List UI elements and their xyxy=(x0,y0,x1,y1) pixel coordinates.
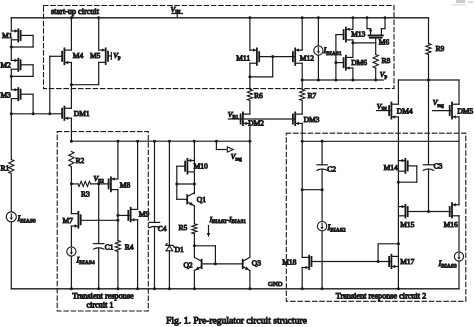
transistor M11 xyxy=(250,49,257,51)
wire R7 to DM3 xyxy=(301,101,303,115)
node Vreg-Q3 xyxy=(248,140,251,143)
svg-text:R8: R8 xyxy=(382,56,391,65)
svg-text:M10: M10 xyxy=(194,162,208,171)
resistor R8 xyxy=(373,55,378,69)
transistor DM6 xyxy=(346,56,353,58)
wire M11 to R6 xyxy=(249,77,251,89)
transistor DM3 xyxy=(295,113,302,115)
svg-text:Transient response circuit 2: Transient response circuit 2 xyxy=(336,292,426,301)
resistor R4 xyxy=(115,241,120,252)
node M10 loop right xyxy=(193,183,196,186)
wire M7 to IBIAS4 xyxy=(70,226,72,247)
svg-text:R3: R3 xyxy=(81,190,90,199)
transistor M18 xyxy=(302,256,309,258)
node M4 top xyxy=(70,16,73,19)
wire DM4 drain up xyxy=(397,80,399,104)
svg-text:DM6: DM6 xyxy=(351,58,367,67)
svg-text:M18: M18 xyxy=(282,257,296,266)
wire M14 gate loop xyxy=(408,165,417,167)
svg-text:DM5: DM5 xyxy=(457,106,473,115)
wire M11 loop xyxy=(249,63,251,77)
node gnd-D1 xyxy=(168,287,171,290)
wire M11M12 gate xyxy=(259,56,294,58)
wire link xyxy=(302,189,322,191)
wire M9 gate xyxy=(118,214,129,216)
node M14 drain xyxy=(397,181,400,184)
svg-text:R5: R5 xyxy=(179,223,188,232)
current source IBIAS2 xyxy=(317,222,326,231)
resistor R7 xyxy=(300,89,305,100)
wire Q1 emitter down xyxy=(193,206,195,224)
wire Q1 base xyxy=(177,198,188,200)
svg-text:R6: R6 xyxy=(254,91,263,100)
wire R4 to GND xyxy=(117,252,119,289)
start-up circuit dashed box xyxy=(44,6,395,89)
wire C1 column xyxy=(98,184,100,244)
wire M5 gate stub xyxy=(108,55,111,57)
wire M12 column xyxy=(301,18,303,50)
wire C1 to GND xyxy=(98,248,100,289)
transistor M16 xyxy=(452,204,459,206)
svg-text:DM2: DM2 xyxy=(248,118,264,127)
svg-text:VP: VP xyxy=(380,70,388,81)
svg-text:DM1: DM1 xyxy=(74,109,90,118)
wire M7 gate xyxy=(81,219,118,221)
svg-text:IBIAS4: IBIAS4 xyxy=(76,256,95,267)
svg-text:Vreg: Vreg xyxy=(433,98,444,109)
wire M10 column xyxy=(193,141,195,194)
zener D1 xyxy=(166,243,174,247)
node stack bottom xyxy=(10,112,13,115)
node VP-M12 xyxy=(301,79,304,82)
node M6 right xyxy=(384,16,387,19)
node M1 drain xyxy=(10,46,13,49)
transient response circuit 2 dashed box xyxy=(286,133,466,301)
transistor M12 xyxy=(295,49,302,51)
svg-text:DM3: DM3 xyxy=(304,115,320,124)
svg-text:IBIAS1: IBIAS1 xyxy=(323,46,342,57)
wire R7 column xyxy=(301,80,303,89)
current source IBIAS4 xyxy=(67,247,76,256)
transistor M15 xyxy=(398,206,405,208)
node base wire xyxy=(214,262,217,265)
wire R8 to VP xyxy=(375,68,377,80)
wire M15M16 gate xyxy=(408,211,451,213)
wire DM2 source down xyxy=(249,123,251,141)
wire M16 source down xyxy=(458,216,460,252)
transistor DM4 xyxy=(391,103,398,105)
wire IBIAS2 top xyxy=(321,190,323,222)
node Vreg-M9 xyxy=(136,140,139,143)
svg-text:M9: M9 xyxy=(139,209,150,218)
node M17 drain xyxy=(397,242,400,245)
transistor M14 xyxy=(398,160,405,162)
wire M6 gate down xyxy=(375,38,377,55)
node VP-IBIAS1 xyxy=(317,79,320,82)
resistor R9 xyxy=(426,44,431,55)
node A xyxy=(193,244,196,247)
wire M1 gate loop xyxy=(21,34,33,36)
svg-text:M13: M13 xyxy=(351,29,365,38)
wire M8 drain up xyxy=(117,141,119,179)
transistor M2 xyxy=(11,59,18,61)
svg-text:VIN: VIN xyxy=(171,5,181,16)
wire M13 gate xyxy=(336,34,344,36)
wire R9 bottom xyxy=(428,55,430,80)
wire R6 to DM2 xyxy=(249,101,251,115)
svg-text:M16: M16 xyxy=(444,220,458,229)
svg-text:M15: M15 xyxy=(400,220,414,229)
node riser-DM6gate xyxy=(334,61,337,64)
node M4 gate junction xyxy=(48,112,51,115)
node gnd-M17 xyxy=(397,287,400,290)
node IBIAS1 rail xyxy=(317,16,320,19)
wire M18 source xyxy=(301,268,303,289)
svg-text:M12: M12 xyxy=(300,53,314,62)
node Vreg-DM1 xyxy=(70,140,73,143)
node gnd-M18 xyxy=(301,287,304,290)
wire M12 drain down xyxy=(301,63,303,80)
transistor M5 xyxy=(99,49,106,51)
wire M9 source down xyxy=(137,220,139,289)
wire M1-M2 xyxy=(10,40,12,61)
svg-text:Q1: Q1 xyxy=(197,195,206,204)
transistor M13 xyxy=(346,28,353,30)
wire Q3 collector up xyxy=(249,141,251,257)
node Vreg-M8 xyxy=(116,140,119,143)
current source IBIAS0 xyxy=(6,212,16,222)
capacitor C4 xyxy=(149,221,159,223)
resistor R3 xyxy=(78,181,91,186)
wire M4 gate riser xyxy=(50,55,62,57)
svg-text:IBIAS2-IBIAS1: IBIAS2-IBIAS1 xyxy=(209,215,247,225)
wire M2 gate loop xyxy=(21,64,33,66)
node VP-R8 xyxy=(374,79,377,82)
wire C3 column xyxy=(428,80,430,165)
wire Q3 emitter xyxy=(249,271,251,289)
wire Q2 emitter xyxy=(193,271,195,289)
svg-text:IBIAS2: IBIAS2 xyxy=(327,223,346,234)
resistor R1 xyxy=(9,160,14,174)
transistor DM2 xyxy=(243,113,250,115)
node Vreg-D1 xyxy=(168,140,171,143)
wire IBIAS1 top xyxy=(317,18,319,46)
node VB2-C1 xyxy=(97,182,100,185)
svg-text:M3: M3 xyxy=(1,90,12,99)
svg-text:Q3: Q3 xyxy=(252,258,261,267)
node M12 top xyxy=(301,16,304,19)
capacitor C1 xyxy=(94,243,104,245)
svg-text:VP: VP xyxy=(113,51,121,62)
wire IBIAS3 to GND xyxy=(458,261,460,289)
wire M9 drain up xyxy=(137,141,139,209)
transistor DM1 xyxy=(64,107,71,109)
wire Q2Q3 base xyxy=(202,263,243,265)
node M11 gate xyxy=(271,55,274,58)
wire DM6 source down xyxy=(352,68,354,80)
svg-text:Vreg: Vreg xyxy=(231,152,242,163)
svg-text:IBIAS3: IBIAS3 xyxy=(438,259,457,270)
svg-text:C2: C2 xyxy=(327,164,336,173)
wire DM5 gate xyxy=(433,110,451,112)
node gnd-IBIAS2 xyxy=(321,287,324,290)
node M5 top xyxy=(97,16,100,19)
node M2 drain xyxy=(10,75,13,78)
wire Vreg tap flag xyxy=(215,141,217,149)
wire M2-M3 xyxy=(10,69,12,90)
wire Vreg net xyxy=(71,140,250,142)
transient response circuit 1 dashed box xyxy=(57,132,148,311)
arrow current annotation xyxy=(208,226,210,235)
wire VB2 xyxy=(71,183,78,185)
wire D1 column xyxy=(168,141,170,245)
node gnd-C1 xyxy=(97,287,100,290)
svg-text:DM4: DM4 xyxy=(397,106,413,115)
svg-text:VIN: VIN xyxy=(377,102,387,113)
svg-text:C3: C3 xyxy=(434,161,443,170)
node gnd-Q2 xyxy=(193,287,196,290)
wire GND rail xyxy=(11,288,459,290)
wire M17 loop xyxy=(377,244,379,262)
wire M3 to R1 xyxy=(10,99,12,160)
wire M5 drain link xyxy=(71,84,98,86)
svg-text:Transient response: Transient response xyxy=(72,292,134,301)
wire R2 to M7 xyxy=(70,167,72,214)
node M7 gate tap xyxy=(116,219,119,222)
wire DM5 drain up xyxy=(458,80,460,104)
current source IBIAS1 xyxy=(314,46,323,55)
svg-text:M1: M1 xyxy=(2,31,13,40)
node M3 loop junction xyxy=(32,112,35,115)
transistor M3 xyxy=(11,89,18,91)
mos capacitor M6 xyxy=(366,18,368,29)
wire VB1 xyxy=(229,118,295,120)
wire left column top xyxy=(10,18,12,31)
svg-text:R1: R1 xyxy=(1,164,10,173)
wire gate riser xyxy=(335,35,337,80)
node gnd-Q3 xyxy=(248,287,251,290)
wire M4 column top xyxy=(70,18,72,50)
wire DM3 source column xyxy=(301,123,303,257)
wire IBIAS1 bottom xyxy=(317,55,319,80)
svg-text:M4: M4 xyxy=(73,51,84,60)
wire bias row xyxy=(11,113,62,115)
svg-text:M7: M7 xyxy=(63,216,74,225)
wire M3 gate loop xyxy=(21,93,33,95)
node Vreg-C4 xyxy=(153,140,156,143)
faint corner artifact xyxy=(456,0,465,3)
node VP-DM6 xyxy=(351,79,354,82)
wire M18M17 gate xyxy=(312,261,390,263)
node M5 drain tie xyxy=(70,83,73,86)
node gnd-M9 xyxy=(136,287,139,290)
node C3 bottom xyxy=(427,210,430,213)
svg-text:M11: M11 xyxy=(236,53,250,62)
wire right column xyxy=(397,117,399,289)
svg-text:circuit 1: circuit 1 xyxy=(86,300,113,309)
svg-text:start-up circuit: start-up circuit xyxy=(51,7,100,16)
resistor R5 xyxy=(192,224,197,234)
wire DM4 gate xyxy=(377,110,390,112)
svg-text:GND: GND xyxy=(268,281,283,288)
svg-text:R2: R2 xyxy=(76,156,85,165)
wire VP net xyxy=(302,79,383,81)
svg-text:M2: M2 xyxy=(1,61,12,70)
node VB2 left xyxy=(70,182,73,185)
wire DM1 source down xyxy=(70,118,72,141)
node C2 top xyxy=(321,140,324,143)
wire C3 bottom xyxy=(428,169,430,211)
wire IBIAS4 to GND xyxy=(70,256,72,289)
transistor Q3 xyxy=(242,260,244,268)
svg-text:R4: R4 xyxy=(125,243,134,252)
wire IBIAS2 to GND xyxy=(321,231,323,289)
node Vreg-M10 xyxy=(193,140,196,143)
node gnd-R4 xyxy=(116,287,119,290)
wire M13 column xyxy=(352,18,354,30)
node M11 top xyxy=(248,16,251,19)
node M11 drain xyxy=(248,75,251,78)
wire DM6 gate xyxy=(336,62,344,64)
wire DM5 source down xyxy=(458,117,460,205)
node link left xyxy=(301,188,304,191)
wire R1 to IBIAS0 xyxy=(10,174,12,213)
node M10 loop left xyxy=(175,183,178,186)
node M13-M6 junction xyxy=(351,41,354,44)
wire M5 column top xyxy=(98,18,100,50)
wire M13 drain xyxy=(352,40,354,58)
node box2 wire left xyxy=(301,140,304,143)
transistor M10 xyxy=(187,160,194,162)
transistor M7 xyxy=(71,213,78,215)
transistor M9 xyxy=(131,208,138,210)
svg-text:R9: R9 xyxy=(436,44,445,53)
wire VIN top rail xyxy=(11,17,428,19)
current source IBIAS3 xyxy=(454,252,463,261)
wire C2 bottom xyxy=(321,169,323,189)
node gnd-IBIAS4 xyxy=(70,287,73,290)
transistor M17 xyxy=(391,255,398,257)
node gnd-C4 xyxy=(153,287,156,290)
transistor DM5 xyxy=(452,103,459,105)
node M6 left xyxy=(366,16,369,19)
wire C4 column xyxy=(154,141,156,222)
transistor M4 xyxy=(64,49,71,51)
wire M8 source down xyxy=(117,190,119,241)
wire C2 column xyxy=(321,141,323,165)
transistor Q1 xyxy=(186,195,188,203)
svg-text:C1: C1 xyxy=(105,243,114,252)
wire M13 to M6 gate xyxy=(353,42,376,44)
node riser-VP xyxy=(334,79,337,82)
node Vreg-tap xyxy=(215,140,218,143)
capacitor C2 xyxy=(317,164,327,166)
wire nodeA right xyxy=(194,245,215,247)
svg-text:M17: M17 xyxy=(400,257,414,266)
capacitor C3 xyxy=(423,164,433,166)
svg-text:M8: M8 xyxy=(120,181,131,190)
svg-text:M5: M5 xyxy=(90,51,101,60)
wire M10 gate loop xyxy=(177,165,185,167)
wire M11 column xyxy=(249,18,251,50)
resistor R2 xyxy=(69,152,74,167)
resistor R6 xyxy=(247,89,252,100)
svg-text:M6: M6 xyxy=(379,37,390,46)
wire box2 net xyxy=(302,140,459,142)
node R9 bottom xyxy=(427,79,430,82)
wire DM4DM5 top xyxy=(398,79,459,81)
wire R9 column xyxy=(428,18,430,44)
node VIN terminal xyxy=(172,13,183,15)
transistor M1 xyxy=(11,30,18,32)
wire IBIAS0 to GND xyxy=(10,222,12,289)
node M9 gate tap xyxy=(116,214,119,217)
node link right xyxy=(321,188,324,191)
node M13 top xyxy=(351,16,354,19)
svg-text:IBIAS0: IBIAS0 xyxy=(17,214,36,225)
svg-text:Fig. 1. Pre-regulator circuit: Fig. 1. Pre-regulator circuit structure xyxy=(166,315,307,326)
transistor Q2 xyxy=(201,260,203,268)
svg-text:C4: C4 xyxy=(158,224,167,233)
wire M4 to DM1 xyxy=(70,63,72,109)
wire Q2 collector xyxy=(193,246,195,257)
svg-text:Q2: Q2 xyxy=(184,260,193,269)
wire R5 to nodeA xyxy=(193,234,195,246)
svg-text:R7: R7 xyxy=(308,91,317,100)
transistor M8 xyxy=(111,178,118,180)
svg-text:M14: M14 xyxy=(384,163,398,172)
wire C4 to GND xyxy=(154,227,156,289)
wire D1 to GND xyxy=(168,251,170,289)
node gate riser xyxy=(377,260,380,263)
svg-text:D1: D1 xyxy=(175,245,184,254)
